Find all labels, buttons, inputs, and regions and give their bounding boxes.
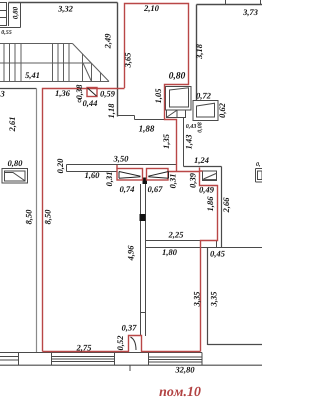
node staircase: [0, 44, 109, 82]
wire right middle wall lower: [183, 118, 185, 167]
node red door box 2: [147, 169, 169, 181]
label 0,67: [148, 186, 163, 193]
wire lower right room wall: [208, 248, 263, 346]
node bottom wall band: [0, 353, 262, 366]
node appliance: [166, 87, 192, 111]
wire top wall left segment: [9, 2, 118, 4]
label 3,32: [58, 6, 73, 13]
label 32,80: [175, 367, 194, 374]
node door arc in bottom notch: [131, 337, 137, 350]
wire red corridor: [43, 89, 125, 352]
node small circle mark: [78, 99, 81, 102]
label 1,18 (rotated): [108, 104, 115, 119]
label 5,41: [25, 72, 39, 79]
label 0,59: [100, 91, 114, 98]
node red door box 1: [117, 169, 143, 181]
label 3,73: [243, 9, 258, 16]
wire corridor bottom wall left: [0, 88, 37, 90]
label 1,88: [139, 126, 154, 133]
wire dim tick 32,80: [129, 365, 131, 371]
label 1,60: [85, 172, 100, 179]
label 3 (cut): [0, 91, 4, 97]
label 4,96 (rotated): [128, 246, 135, 261]
label 3,35 (rotated): [211, 292, 218, 307]
label 2,75: [76, 345, 91, 352]
label 0,37: [122, 325, 137, 332]
label 1,24: [194, 157, 208, 164]
label 2,66 (rotated): [223, 198, 230, 213]
label 2,10: [144, 5, 159, 12]
label 0,49: [199, 187, 213, 194]
wire wall 1,24: [184, 166, 222, 168]
wire stair hall right wall: [117, 3, 119, 117]
wire red bottom: [43, 336, 201, 352]
node red shaft square: [87, 88, 97, 97]
wire red right path: [168, 168, 218, 352]
node door 0,49: [203, 171, 217, 181]
wire long left wall: [36, 89, 38, 353]
label 8,50 (rotated): [45, 210, 52, 225]
label 0,80 (rotated): [13, 7, 19, 19]
label 0,80: [8, 160, 22, 167]
label 0,08 (rotated): [198, 122, 203, 132]
label 0,38 (rotated): [76, 85, 83, 99]
node red outline: [43, 4, 218, 352]
label 0,74: [120, 186, 134, 193]
label 2,25: [168, 232, 183, 239]
label 1,35 (rotated): [163, 134, 170, 148]
label 2,61 (rotated): [9, 117, 16, 131]
label 0,80: [169, 72, 185, 80]
label 8,50 (rotated): [26, 210, 33, 225]
label 3,65 (rotated): [125, 53, 132, 68]
node window 0,80 left: [2, 169, 28, 184]
label 1,43 (rotated): [186, 135, 193, 149]
label 0,52 (rotated): [117, 336, 124, 350]
label 0, (cut): [256, 162, 260, 167]
label 1,36: [55, 90, 70, 97]
wire center double wall: [141, 184, 146, 336]
wire wall 2,25: [146, 241, 263, 248]
node black diagonals in red boxes: [88, 88, 169, 178]
label 0,72: [196, 93, 210, 100]
node window 0,72: [193, 101, 218, 121]
label 0,62 (rotated): [219, 103, 226, 117]
wire right middle wall upper: [196, 5, 198, 102]
label 0,43: [186, 124, 196, 129]
wire center wall y117: [118, 116, 165, 120]
label 0,55: [1, 30, 11, 35]
label 3,18 (rotated): [196, 44, 203, 59]
wire corridor 3,50 wall: [67, 165, 177, 172]
label 1,80: [162, 249, 177, 256]
label 0,39 (rotated): [190, 173, 197, 187]
label 1,86 (rotated): [207, 197, 214, 212]
label 0,20 (rotated): [57, 159, 64, 173]
node window top-left: [0, 3, 21, 28]
label 0,31 (rotated): [106, 172, 113, 186]
label 2,49 (rotated): [105, 34, 112, 49]
label 0,45: [210, 251, 224, 258]
label 3,35 (rotated): [194, 292, 201, 307]
label 3,50: [114, 156, 129, 163]
wire red room top: [125, 4, 189, 172]
label 0,44: [83, 100, 97, 107]
wire top ticks: [226, 0, 261, 5]
label 0,31 (rotated): [170, 174, 177, 188]
node right edge window: [256, 169, 263, 183]
node black piers: [140, 178, 148, 222]
wire top wall right segment: [197, 4, 263, 6]
wire right room left wall: [221, 167, 223, 248]
label 1,05 (rotated): [155, 89, 162, 103]
node small rect under appliance: [167, 110, 186, 118]
label пом.10: [159, 387, 200, 397]
wire red stub at door box 1: [116, 165, 118, 169]
